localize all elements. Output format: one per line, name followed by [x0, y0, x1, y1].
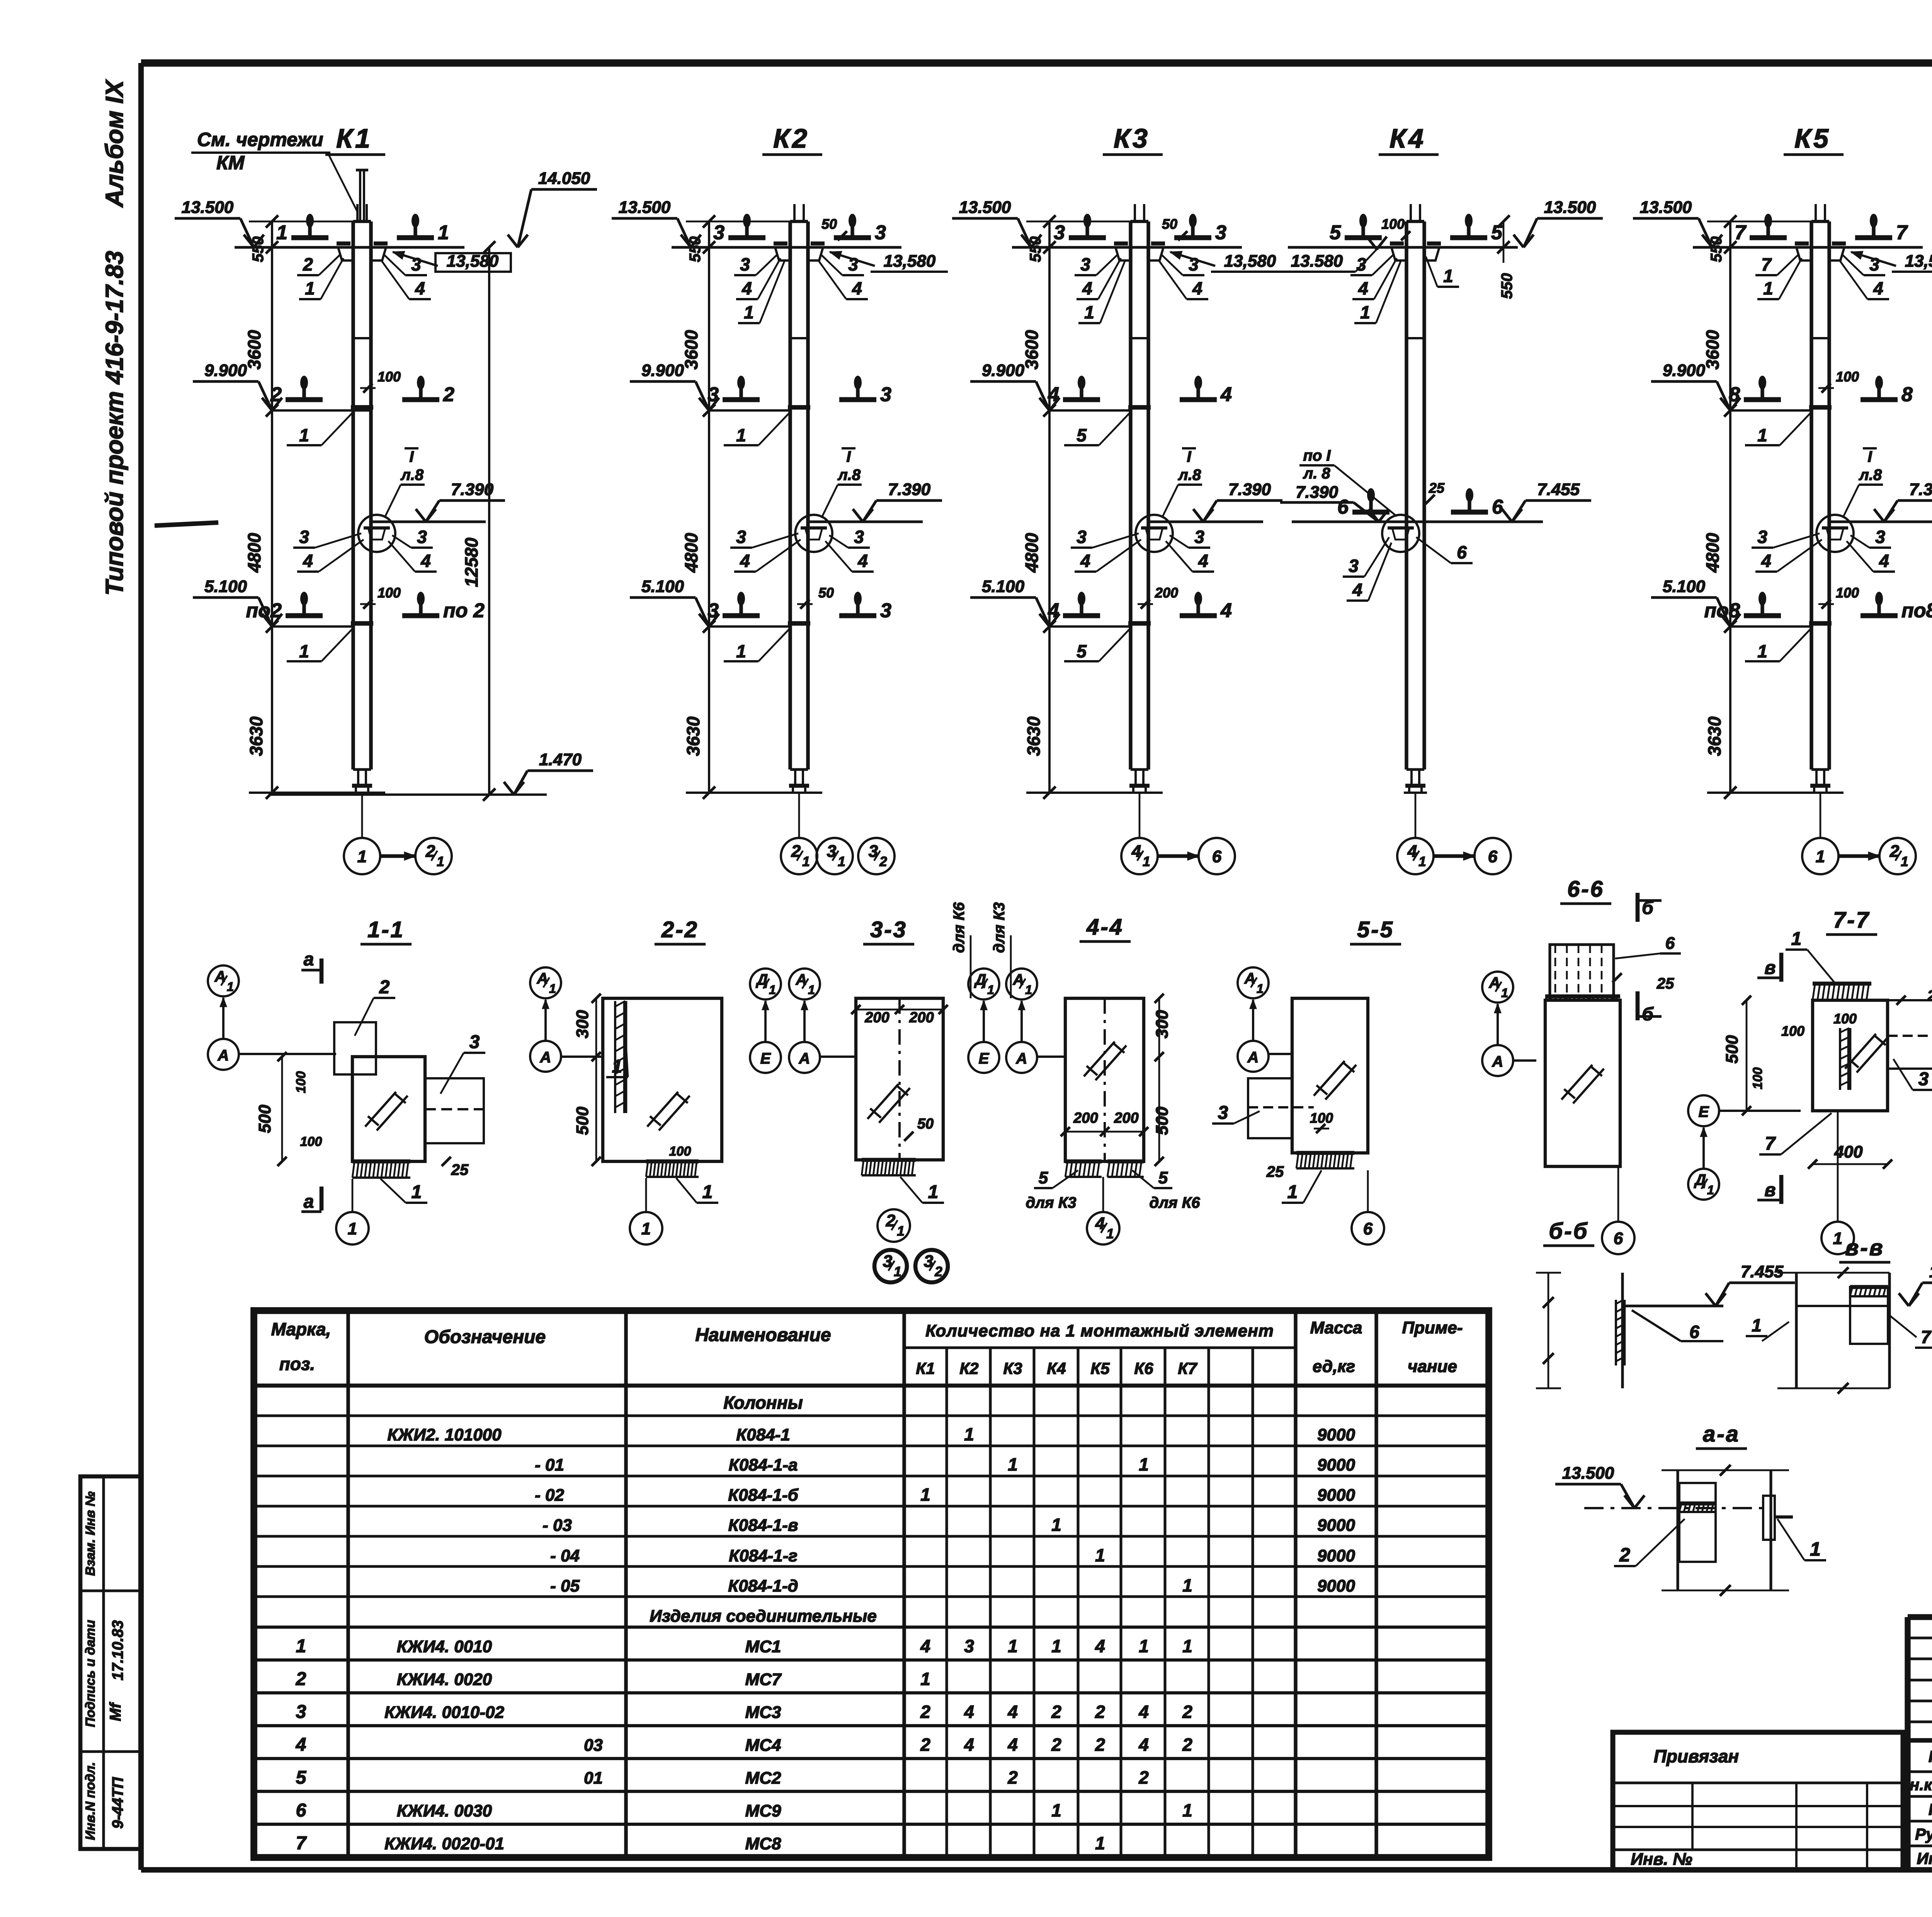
svg-text:12580: 12580 — [461, 538, 481, 587]
svg-text:9000: 9000 — [1317, 1425, 1355, 1444]
svg-text:4: 4 — [415, 278, 425, 298]
svg-text:5.100: 5.100 — [641, 577, 684, 596]
svg-text:3600: 3600 — [1702, 330, 1723, 369]
svg-text:3: 3 — [1349, 556, 1359, 576]
svg-text:1.470: 1.470 — [539, 750, 582, 769]
svg-text:5: 5 — [1491, 221, 1503, 244]
svg-text:К084-1-в: К084-1-в — [728, 1516, 798, 1535]
svg-text:чание: чание — [1408, 1357, 1457, 1376]
svg-text:Колонны: Колонны — [723, 1393, 803, 1413]
svg-text:К5: К5 — [1794, 123, 1831, 153]
svg-text:Рук. гр.: Рук. гр. — [1915, 1825, 1932, 1843]
svg-text:1: 1 — [987, 983, 994, 997]
svg-text:І: І — [1867, 448, 1872, 465]
svg-text:550: 550 — [687, 237, 704, 262]
svg-text:1: 1 — [1707, 1183, 1714, 1197]
svg-text:К5: К5 — [1090, 1359, 1110, 1377]
svg-text:К084-1: К084-1 — [736, 1425, 790, 1444]
svg-text:3: 3 — [417, 527, 427, 547]
svg-text:9000: 9000 — [1317, 1486, 1355, 1505]
svg-text:1: 1 — [1182, 1636, 1192, 1656]
svg-text:500: 500 — [255, 1105, 274, 1133]
svg-text:3: 3 — [1869, 254, 1879, 274]
svg-text:по2: по2 — [246, 599, 282, 622]
svg-text:4800: 4800 — [1022, 533, 1042, 573]
svg-text:4: 4 — [1138, 1702, 1149, 1722]
svg-text:4: 4 — [857, 551, 868, 571]
svg-text:2: 2 — [920, 1702, 930, 1722]
svg-text:5: 5 — [1039, 1168, 1048, 1187]
svg-text:4: 4 — [303, 551, 313, 571]
svg-text:4: 4 — [1220, 599, 1232, 622]
svg-text:500: 500 — [573, 1107, 592, 1135]
svg-text:4: 4 — [1879, 551, 1889, 571]
svg-text:1: 1 — [1139, 1454, 1149, 1474]
svg-text:3: 3 — [1875, 527, 1885, 547]
svg-text:2: 2 — [379, 977, 390, 998]
svg-text:6: 6 — [1492, 496, 1503, 518]
svg-text:3: 3 — [1218, 1103, 1228, 1123]
svg-text:3: 3 — [1757, 527, 1767, 547]
svg-text:4: 4 — [742, 278, 752, 298]
svg-text:Д: Д — [1694, 1171, 1706, 1188]
svg-text:9.900: 9.900 — [641, 361, 684, 380]
svg-text:4: 4 — [1007, 1735, 1018, 1755]
svg-text:6: 6 — [296, 1800, 306, 1821]
svg-text:2: 2 — [1182, 1702, 1192, 1722]
svg-text:4800: 4800 — [244, 533, 264, 573]
svg-text:4: 4 — [420, 551, 431, 571]
svg-text:Изделия соединительные: Изделия соединительные — [650, 1607, 877, 1626]
svg-text:1: 1 — [1143, 854, 1150, 869]
svg-text:7: 7 — [1735, 221, 1747, 244]
svg-text:для К6: для К6 — [1149, 1194, 1200, 1211]
svg-text:КЖИ4. 0020-01: КЖИ4. 0020-01 — [384, 1834, 504, 1853]
svg-text:л.8: л.8 — [1178, 466, 1201, 484]
svg-text:100: 100 — [294, 1071, 308, 1093]
svg-text:5: 5 — [1330, 221, 1341, 244]
svg-text:2: 2 — [1051, 1735, 1061, 1755]
svg-text:1: 1 — [928, 1182, 939, 1202]
svg-text:1: 1 — [1418, 854, 1426, 869]
svg-text:3: 3 — [736, 527, 746, 547]
svg-text:1: 1 — [1257, 982, 1264, 996]
svg-text:1: 1 — [920, 1669, 930, 1689]
svg-text:К3: К3 — [1003, 1359, 1022, 1377]
svg-text:2: 2 — [1051, 1702, 1061, 1722]
svg-text:МС8: МС8 — [745, 1834, 781, 1853]
svg-text:КЖИ4. 0010-02: КЖИ4. 0010-02 — [384, 1703, 504, 1722]
svg-text:8: 8 — [1729, 383, 1740, 406]
svg-text:Инв.N подл.: Инв.N подл. — [83, 1762, 98, 1840]
svg-text:Масса: Масса — [1310, 1318, 1362, 1337]
svg-text:1: 1 — [1360, 302, 1370, 322]
svg-text:3: 3 — [740, 254, 750, 274]
svg-text:6: 6 — [1363, 1219, 1373, 1238]
svg-text:ГИП: ГИП — [1929, 1800, 1932, 1818]
svg-text:7.390: 7.390 — [888, 480, 931, 499]
svg-text:50: 50 — [1162, 216, 1177, 232]
svg-text:13.500: 13.500 — [1929, 1262, 1932, 1281]
svg-text:по8: по8 — [1901, 599, 1932, 622]
svg-text:1: 1 — [348, 1219, 357, 1238]
svg-text:3600: 3600 — [244, 330, 264, 369]
svg-text:6: 6 — [1665, 934, 1675, 953]
svg-text:К3: К3 — [1114, 123, 1150, 153]
svg-text:3: 3 — [964, 1636, 974, 1656]
svg-text:2: 2 — [879, 854, 887, 869]
svg-text:Наименование: Наименование — [695, 1325, 831, 1345]
svg-text:100: 100 — [1750, 1067, 1765, 1090]
svg-text:1: 1 — [1901, 854, 1908, 869]
svg-text:4800: 4800 — [1702, 533, 1723, 573]
svg-text:7.390: 7.390 — [1228, 480, 1271, 499]
svg-text:4: 4 — [1082, 278, 1092, 298]
svg-text:25: 25 — [1656, 975, 1674, 992]
svg-text:1: 1 — [920, 1485, 930, 1505]
svg-text:3: 3 — [411, 254, 421, 274]
svg-text:А: А — [218, 1047, 229, 1064]
svg-text:1: 1 — [1008, 1636, 1018, 1656]
svg-text:25: 25 — [1429, 480, 1445, 496]
svg-text:7.390: 7.390 — [451, 480, 494, 499]
svg-text:3: 3 — [299, 527, 309, 547]
svg-text:Подпись и дати: Подпись и дати — [83, 1620, 98, 1727]
svg-text:13,580: 13,580 — [884, 252, 936, 271]
svg-text:К4: К4 — [1389, 123, 1426, 153]
svg-text:3: 3 — [875, 221, 886, 244]
svg-text:1: 1 — [894, 1264, 901, 1279]
svg-text:К1: К1 — [336, 123, 372, 153]
svg-text:03: 03 — [584, 1736, 603, 1755]
svg-text:КЖИ2. 101000: КЖИ2. 101000 — [387, 1425, 502, 1444]
svg-text:Инв. №: Инв. № — [1631, 1850, 1692, 1869]
svg-text:МС3: МС3 — [745, 1703, 781, 1722]
svg-text:3: 3 — [707, 383, 719, 406]
svg-text:А: А — [1247, 1049, 1259, 1066]
svg-text:Количество на 1 монтажный эле: Количество на 1 монтажный элемент — [925, 1321, 1274, 1340]
svg-text:100: 100 — [1836, 585, 1859, 601]
svg-text:3: 3 — [713, 221, 724, 244]
svg-text:для К3: для К3 — [991, 902, 1008, 953]
svg-text:а: а — [304, 1192, 314, 1212]
svg-text:4: 4 — [964, 1702, 974, 1722]
svg-text:1: 1 — [1025, 983, 1032, 997]
svg-text:6-6: 6-6 — [1567, 877, 1604, 902]
svg-text:9.900: 9.900 — [204, 361, 247, 380]
svg-text:13.580: 13.580 — [1291, 252, 1343, 271]
svg-text:Альбом IX: Альбом IX — [100, 79, 128, 208]
svg-text:8: 8 — [1901, 383, 1913, 406]
svg-text:100: 100 — [300, 1134, 322, 1149]
svg-text:1: 1 — [1757, 641, 1767, 661]
svg-text:Марка,: Марка, — [271, 1319, 331, 1339]
svg-text:13.500: 13.500 — [619, 198, 671, 217]
svg-text:К2: К2 — [959, 1359, 978, 1377]
svg-text:1: 1 — [296, 1636, 306, 1657]
svg-text:2-2: 2-2 — [661, 917, 699, 942]
svg-text:1: 1 — [1287, 1182, 1298, 1202]
svg-text:для К3: для К3 — [1026, 1194, 1076, 1211]
svg-text:КМ: КМ — [216, 152, 245, 174]
svg-text:л.8: л.8 — [400, 466, 424, 484]
svg-text:- 01: - 01 — [535, 1456, 564, 1474]
svg-text:3: 3 — [1189, 254, 1199, 274]
svg-text:13.500: 13.500 — [1640, 198, 1692, 217]
svg-text:К2: К2 — [773, 123, 810, 153]
svg-text:МС7: МС7 — [745, 1670, 782, 1689]
svg-text:1: 1 — [1051, 1800, 1061, 1820]
svg-text:1: 1 — [1051, 1636, 1061, 1656]
svg-text:1: 1 — [1182, 1800, 1192, 1820]
svg-text:2: 2 — [1095, 1735, 1105, 1755]
svg-text:9000: 9000 — [1317, 1546, 1355, 1565]
svg-text:9-44ТП: 9-44ТП — [109, 1777, 126, 1828]
svg-text:13,580: 13,580 — [447, 252, 499, 271]
svg-text:100: 100 — [1310, 1110, 1333, 1126]
svg-text:1: 1 — [612, 1056, 622, 1077]
svg-text:4: 4 — [1192, 278, 1202, 298]
svg-text:2: 2 — [296, 1669, 306, 1689]
svg-text:1-1: 1-1 — [367, 917, 405, 942]
svg-text:3630: 3630 — [246, 716, 266, 756]
svg-text:6: 6 — [1689, 1322, 1699, 1342]
svg-text:1: 1 — [964, 1424, 974, 1444]
svg-text:13.500: 13.500 — [1562, 1464, 1614, 1483]
svg-text:Е: Е — [760, 1050, 771, 1067]
svg-text:7: 7 — [1896, 221, 1908, 244]
svg-text:1: 1 — [838, 854, 845, 869]
svg-text:550: 550 — [1708, 237, 1725, 262]
svg-text:4: 4 — [1198, 551, 1208, 571]
svg-text:І: І — [1187, 448, 1191, 465]
svg-text:Инжен.: Инжен. — [1917, 1849, 1932, 1868]
svg-text:550: 550 — [250, 237, 267, 262]
svg-text:3: 3 — [854, 527, 864, 547]
svg-text:1: 1 — [1095, 1545, 1105, 1565]
svg-text:МС2: МС2 — [745, 1769, 781, 1788]
svg-text:4: 4 — [1080, 551, 1090, 571]
svg-text:7-7: 7-7 — [1833, 907, 1870, 933]
svg-text:100: 100 — [378, 585, 401, 601]
svg-text:4: 4 — [1048, 383, 1059, 406]
svg-text:4: 4 — [740, 551, 750, 571]
svg-text:поз.: поз. — [279, 1354, 315, 1374]
svg-text:1: 1 — [702, 1182, 713, 1202]
svg-text:3: 3 — [880, 599, 891, 622]
svg-text:9000: 9000 — [1317, 1516, 1355, 1535]
svg-text:А: А — [214, 968, 226, 985]
svg-text:3: 3 — [707, 599, 719, 622]
svg-text:К6: К6 — [1134, 1359, 1153, 1377]
svg-text:13.500: 13.500 — [182, 198, 234, 217]
svg-text:25: 25 — [1266, 1163, 1284, 1180]
svg-text:7.455: 7.455 — [1537, 480, 1580, 499]
svg-text:3: 3 — [296, 1702, 306, 1722]
svg-text:50: 50 — [821, 216, 837, 232]
svg-text:1: 1 — [1752, 1315, 1762, 1335]
svg-text:500: 500 — [1723, 1035, 1742, 1064]
svg-text:9.900: 9.900 — [1663, 361, 1706, 380]
svg-text:3-3: 3-3 — [870, 917, 907, 942]
svg-text:300: 300 — [573, 1010, 592, 1039]
svg-text:2: 2 — [1007, 1767, 1018, 1788]
svg-text:2: 2 — [934, 1264, 942, 1279]
svg-text:14.050: 14.050 — [538, 169, 590, 188]
svg-text:200: 200 — [864, 1010, 889, 1026]
svg-text:в: в — [1765, 958, 1776, 978]
svg-text:К084-1-а: К084-1-а — [729, 1456, 798, 1474]
svg-text:25: 25 — [451, 1161, 469, 1178]
svg-text:1: 1 — [1443, 266, 1453, 286]
svg-text:1: 1 — [1763, 278, 1773, 298]
svg-text:6: 6 — [1212, 847, 1222, 866]
svg-text:2: 2 — [1138, 1767, 1149, 1788]
svg-text:4: 4 — [852, 278, 862, 298]
svg-text:1: 1 — [412, 1182, 422, 1202]
svg-text:5.100: 5.100 — [1663, 577, 1706, 596]
svg-text:1: 1 — [1139, 1636, 1149, 1656]
svg-text:1: 1 — [276, 221, 287, 244]
svg-text:1: 1 — [305, 278, 315, 298]
svg-text:500: 500 — [1153, 1107, 1172, 1135]
svg-text:5: 5 — [1077, 641, 1087, 661]
svg-text:КЖИ4. 0010: КЖИ4. 0010 — [397, 1637, 492, 1656]
svg-text:550: 550 — [1498, 273, 1515, 299]
svg-text:Взам. Инв №: Взам. Инв № — [83, 1491, 98, 1576]
svg-text:1: 1 — [736, 425, 746, 445]
svg-text:01: 01 — [584, 1769, 603, 1788]
svg-text:4: 4 — [1007, 1702, 1018, 1722]
svg-text:3: 3 — [880, 383, 891, 406]
svg-text:4: 4 — [1048, 599, 1059, 622]
svg-text:л.8: л.8 — [837, 466, 861, 484]
svg-text:200: 200 — [909, 1010, 934, 1026]
svg-text:7.390: 7.390 — [1909, 480, 1932, 499]
svg-text:1: 1 — [1833, 1229, 1842, 1248]
svg-text:7.390: 7.390 — [1296, 483, 1338, 502]
svg-text:А: А — [799, 1050, 810, 1067]
svg-text:А: А — [1492, 1053, 1503, 1070]
svg-text:13,580: 13,580 — [1224, 252, 1276, 271]
svg-text:МС9: МС9 — [745, 1801, 781, 1820]
svg-text:МС1: МС1 — [745, 1637, 781, 1656]
svg-text:7: 7 — [296, 1833, 307, 1854]
svg-text:13.500: 13.500 — [1544, 198, 1596, 217]
svg-text:550: 550 — [1027, 237, 1044, 262]
svg-text:4: 4 — [1358, 278, 1368, 298]
svg-text:См. чертежи: См. чертежи — [197, 129, 323, 150]
svg-text:300: 300 — [1153, 1010, 1172, 1039]
svg-text:л.8: л.8 — [1859, 466, 1882, 484]
svg-text:Д: Д — [756, 971, 768, 988]
svg-text:4: 4 — [964, 1735, 974, 1755]
svg-text:3: 3 — [1077, 527, 1087, 547]
svg-text:3: 3 — [1356, 254, 1366, 274]
svg-text:а: а — [304, 949, 314, 970]
svg-text:1: 1 — [299, 641, 309, 661]
svg-text:4: 4 — [1352, 580, 1362, 600]
svg-text:100: 100 — [1836, 369, 1859, 385]
svg-text:К084-1-д: К084-1-д — [728, 1577, 798, 1595]
svg-text:4-4: 4-4 — [1086, 914, 1124, 940]
svg-text:6: 6 — [1337, 496, 1349, 518]
svg-text:200: 200 — [1114, 1110, 1138, 1126]
svg-text:2: 2 — [1095, 1702, 1105, 1722]
svg-text:в-в: в-в — [1845, 1235, 1884, 1260]
svg-text:4: 4 — [296, 1735, 306, 1755]
svg-text:2: 2 — [303, 254, 313, 274]
svg-text:1: 1 — [802, 854, 810, 869]
svg-text:2: 2 — [1182, 1735, 1192, 1755]
svg-text:Приме-: Приме- — [1402, 1318, 1463, 1337]
svg-text:А: А — [1244, 970, 1256, 987]
svg-text:3: 3 — [1054, 221, 1065, 244]
svg-text:1: 1 — [736, 641, 746, 661]
svg-text:3: 3 — [848, 254, 858, 274]
svg-text:А: А — [1013, 971, 1024, 988]
svg-text:1: 1 — [1501, 986, 1508, 1000]
svg-text:1: 1 — [227, 980, 234, 994]
svg-text:1: 1 — [744, 302, 754, 322]
svg-text:4: 4 — [1220, 383, 1232, 406]
svg-text:5: 5 — [1158, 1168, 1168, 1187]
svg-text:9.900: 9.900 — [982, 361, 1025, 380]
svg-text:1: 1 — [1008, 1454, 1018, 1474]
svg-text:7: 7 — [1761, 254, 1772, 274]
svg-text:1: 1 — [897, 1224, 904, 1239]
svg-text:А: А — [1489, 974, 1500, 991]
svg-text:4: 4 — [1095, 1636, 1105, 1656]
svg-text:1: 1 — [299, 425, 309, 445]
svg-text:5.100: 5.100 — [982, 577, 1025, 596]
svg-text:13,580: 13,580 — [1905, 252, 1932, 271]
svg-text:К084-1-г: К084-1-г — [729, 1546, 798, 1565]
svg-text:1: 1 — [1810, 1538, 1821, 1560]
svg-text:9000: 9000 — [1317, 1456, 1355, 1474]
svg-text:Д: Д — [974, 971, 986, 988]
svg-text:4800: 4800 — [681, 533, 701, 573]
svg-text:6: 6 — [1614, 1229, 1623, 1248]
svg-text:1: 1 — [1051, 1515, 1061, 1535]
svg-text:К084-1-б: К084-1-б — [728, 1486, 799, 1505]
svg-text:6: 6 — [1457, 542, 1467, 562]
svg-text:6: 6 — [1488, 847, 1498, 866]
svg-text:- 03: - 03 — [543, 1516, 572, 1535]
svg-text:в: в — [1765, 1180, 1776, 1200]
svg-text:3630: 3630 — [1024, 716, 1044, 756]
svg-text:для К6: для К6 — [951, 902, 968, 953]
svg-text:ед,кг: ед,кг — [1313, 1357, 1355, 1376]
svg-text:- 04: - 04 — [550, 1546, 580, 1565]
svg-text:А: А — [537, 970, 548, 987]
svg-text:н.контр.: н.контр. — [1910, 1776, 1932, 1794]
svg-text:по І: по І — [1303, 447, 1331, 464]
svg-text:5: 5 — [296, 1767, 307, 1788]
svg-text:КЖИ4. 0030: КЖИ4. 0030 — [397, 1801, 492, 1820]
svg-text:1: 1 — [1816, 847, 1825, 866]
svg-text:4: 4 — [1761, 551, 1771, 571]
svg-text:1: 1 — [769, 983, 776, 997]
svg-text:3600: 3600 — [1022, 330, 1042, 369]
svg-text:І: І — [846, 448, 851, 465]
svg-text:б: б — [1642, 1004, 1654, 1025]
svg-text:1: 1 — [641, 1219, 651, 1238]
svg-text:1: 1 — [437, 854, 444, 869]
svg-text:100: 100 — [1833, 1011, 1857, 1027]
svg-text:5: 5 — [1077, 425, 1087, 445]
svg-text:4: 4 — [920, 1636, 930, 1656]
